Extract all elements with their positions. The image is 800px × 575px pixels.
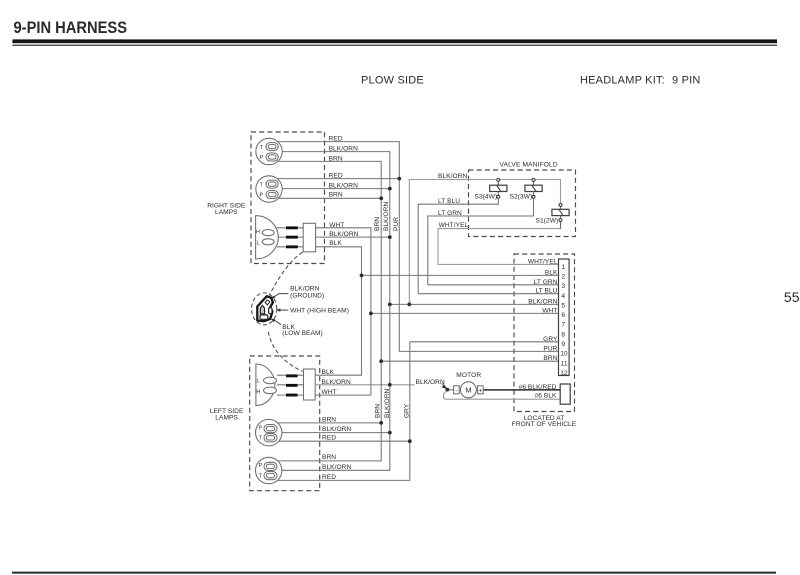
- svg-text:S3(4W): S3(4W): [475, 193, 498, 200]
- svg-text:-: -: [455, 387, 457, 394]
- svg-text:BLK/ORN: BLK/ORN: [322, 464, 351, 471]
- svg-text:GRY: GRY: [543, 336, 558, 343]
- svg-text:BRN: BRN: [543, 355, 557, 362]
- svg-text:BRN: BRN: [322, 454, 336, 461]
- svg-text:LAMPS: LAMPS: [215, 209, 238, 216]
- svg-text:M: M: [465, 386, 471, 395]
- svg-text:BLK/ORN: BLK/ORN: [528, 298, 557, 305]
- svg-text:PUR: PUR: [543, 345, 557, 352]
- svg-text:WHT (HIGH BEAM): WHT (HIGH BEAM): [290, 307, 349, 314]
- svg-text:S1(2W): S1(2W): [536, 217, 559, 224]
- svg-text:BRN: BRN: [329, 192, 343, 199]
- svg-text:BLK/ORN: BLK/ORN: [322, 426, 351, 433]
- svg-text:4: 4: [561, 293, 565, 300]
- svg-text:2: 2: [561, 274, 565, 281]
- svg-text:BRN: BRN: [374, 404, 381, 418]
- svg-text:HEADLAMP KIT:: HEADLAMP KIT:: [580, 75, 665, 87]
- svg-text:11: 11: [561, 360, 568, 367]
- svg-text:L: L: [257, 241, 260, 247]
- svg-text:VALVE MANIFOLD: VALVE MANIFOLD: [500, 161, 558, 168]
- svg-text:BLK/ORN: BLK/ORN: [290, 285, 319, 292]
- svg-text:RED: RED: [322, 435, 336, 442]
- svg-text:BLK/ORN: BLK/ORN: [329, 183, 358, 190]
- svg-text:MOTOR: MOTOR: [456, 372, 481, 379]
- svg-text:RED: RED: [329, 173, 343, 180]
- svg-text:(LOW BEAM): (LOW BEAM): [282, 330, 322, 337]
- svg-text:BLK/ORN: BLK/ORN: [329, 231, 358, 238]
- svg-text:(GROUND): (GROUND): [290, 293, 324, 300]
- svg-text:BRN: BRN: [374, 217, 381, 231]
- svg-text:WHT: WHT: [329, 222, 344, 229]
- svg-text:BLK: BLK: [545, 269, 558, 276]
- svg-text:BLK/ORN: BLK/ORN: [329, 146, 358, 153]
- svg-text:#6 BLK: #6 BLK: [535, 392, 557, 399]
- svg-text:RED: RED: [322, 474, 336, 481]
- svg-text:WHT: WHT: [542, 307, 557, 314]
- svg-text:9-PIN HARNESS: 9-PIN HARNESS: [14, 19, 128, 37]
- svg-text:P: P: [258, 463, 262, 469]
- svg-text:BLK/ORN: BLK/ORN: [438, 173, 467, 180]
- svg-text:P: P: [258, 425, 262, 431]
- svg-text:5: 5: [561, 303, 565, 310]
- svg-text:WHT: WHT: [322, 389, 337, 396]
- svg-text:BLK/ORN: BLK/ORN: [416, 379, 445, 386]
- svg-text:3: 3: [561, 283, 565, 290]
- svg-text:WHT/YEL: WHT/YEL: [528, 258, 558, 265]
- svg-text:1: 1: [561, 264, 565, 271]
- svg-text:S2(3W): S2(3W): [510, 193, 533, 200]
- svg-text:PUR: PUR: [393, 217, 400, 231]
- svg-text:FRONT OF VEHICLE: FRONT OF VEHICLE: [512, 421, 577, 428]
- svg-text:BRN: BRN: [329, 155, 343, 162]
- svg-text:LT GRN: LT GRN: [438, 210, 462, 217]
- svg-text:LT BLU: LT BLU: [535, 288, 557, 295]
- svg-text:BLK/ORN: BLK/ORN: [383, 202, 390, 231]
- svg-text:L: L: [257, 378, 260, 384]
- svg-text:BLK/ORN: BLK/ORN: [322, 379, 351, 386]
- svg-text:GRY: GRY: [403, 403, 410, 418]
- svg-text:H: H: [256, 389, 260, 395]
- svg-text:7: 7: [561, 322, 565, 329]
- svg-text:LT BLU: LT BLU: [438, 198, 460, 205]
- svg-text:LAMPS: LAMPS: [215, 415, 238, 422]
- svg-text:BRN: BRN: [322, 416, 336, 423]
- svg-text:9 PIN: 9 PIN: [672, 75, 701, 87]
- svg-text:PLOW SIDE: PLOW SIDE: [361, 75, 424, 87]
- svg-text:8: 8: [561, 331, 565, 338]
- svg-text:12: 12: [560, 370, 568, 377]
- svg-text:10: 10: [560, 351, 568, 358]
- svg-text:RED: RED: [329, 136, 343, 143]
- svg-text:BLK: BLK: [329, 240, 342, 247]
- svg-text:#6 BLK/RED: #6 BLK/RED: [519, 384, 557, 391]
- svg-text:9: 9: [561, 341, 565, 348]
- svg-text:55: 55: [784, 289, 800, 305]
- svg-text:BLK/ORN: BLK/ORN: [384, 389, 391, 418]
- svg-text:6: 6: [561, 312, 565, 319]
- svg-text:H: H: [256, 229, 260, 235]
- svg-text:WHT/YEL: WHT/YEL: [439, 222, 469, 229]
- svg-text:LT GRN: LT GRN: [534, 279, 558, 286]
- svg-text:BLK: BLK: [322, 369, 335, 376]
- svg-text:P: P: [259, 192, 263, 198]
- svg-text:+: +: [479, 388, 483, 395]
- svg-text:P: P: [259, 155, 263, 161]
